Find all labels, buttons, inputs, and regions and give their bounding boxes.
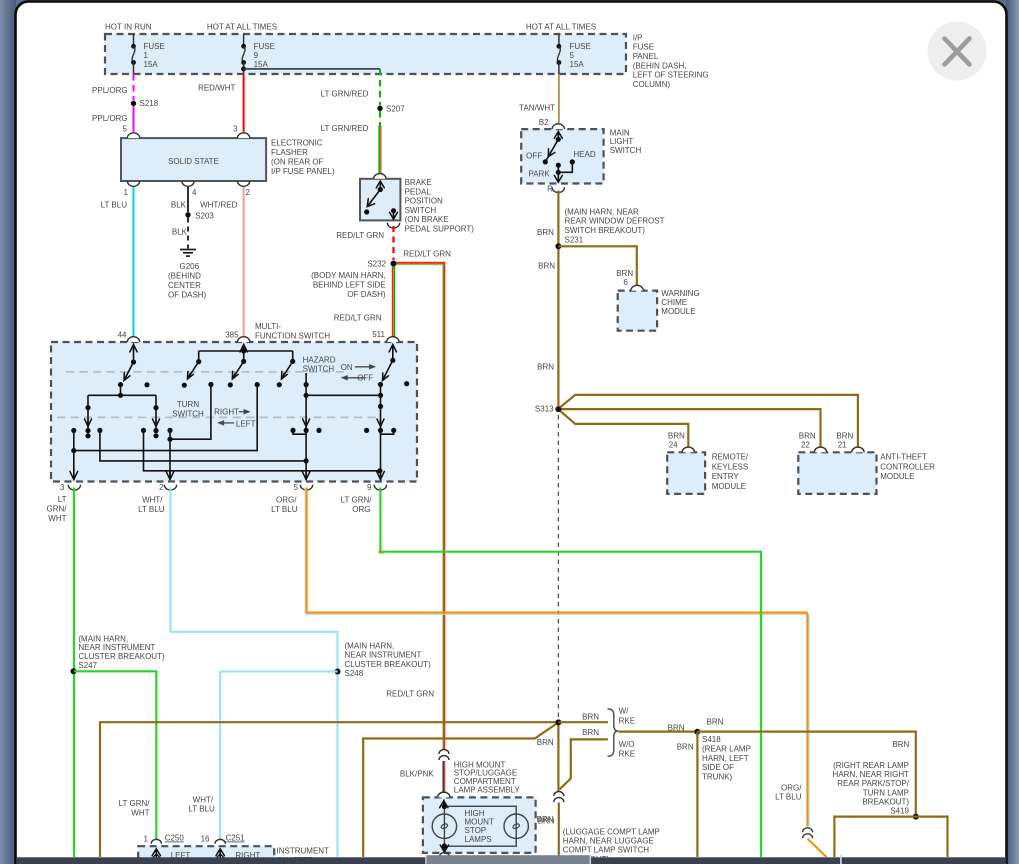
svg-text:MODULE: MODULE [661,307,695,316]
svg-text:BRN: BRN [616,269,633,278]
svg-text:MODULE: MODULE [880,472,914,481]
svg-text:S207: S207 [386,105,405,114]
svg-text:SIDE OF: SIDE OF [702,763,734,772]
svg-text:BRN: BRN [538,817,555,826]
svg-text:WHT/: WHT/ [193,795,214,804]
svg-text:FUSE: FUSE [144,42,165,51]
svg-text:FLASHER: FLASHER [271,148,308,157]
svg-text:S248: S248 [345,669,364,678]
svg-text:BRN: BRN [582,728,599,737]
svg-text:I/P FUSE PANEL): I/P FUSE PANEL) [271,167,335,176]
svg-text:BRN: BRN [538,262,555,271]
svg-text:FUSE: FUSE [254,42,275,51]
svg-text:CLUSTER BREAKOUT): CLUSTER BREAKOUT) [345,660,432,669]
svg-text:(MAIN HARN, NEAR: (MAIN HARN, NEAR [565,207,639,216]
svg-text:MODULE: MODULE [712,482,746,491]
svg-text:3: 3 [233,125,238,134]
svg-text:(RIGHT REAR LAMP: (RIGHT REAR LAMP [833,761,909,770]
svg-text:RED/LT GRN: RED/LT GRN [334,314,382,323]
svg-text:CENTER: CENTER [168,281,201,290]
svg-text:CONTROLLER: CONTROLLER [880,462,935,471]
svg-text:S419: S419 [890,807,909,816]
svg-text:G206: G206 [180,262,200,271]
svg-text:LT BLU: LT BLU [188,805,215,814]
svg-text:RED/WHT: RED/WHT [198,83,235,92]
svg-text:ELECTRONIC: ELECTRONIC [271,138,323,147]
svg-text:BLK: BLK [171,201,187,210]
svg-text:LT BLU: LT BLU [271,505,298,514]
svg-text:ENTRY: ENTRY [712,472,740,481]
svg-text:REAR WINDOW DEFROST: REAR WINDOW DEFROST [565,217,665,226]
svg-text:(REAR LAMP: (REAR LAMP [702,744,751,753]
svg-text:NEAR INSTRUMENT: NEAR INSTRUMENT [78,643,155,652]
svg-text:5: 5 [123,125,128,134]
svg-text:4: 4 [192,188,197,197]
svg-text:(BEHIND: (BEHIND [168,271,201,280]
svg-text:1: 1 [124,188,129,197]
svg-text:WHT/: WHT/ [142,496,163,505]
svg-text:LT GRN/: LT GRN/ [341,496,373,505]
svg-text:LT GRN/RED: LT GRN/RED [321,89,369,98]
svg-text:REAR PARK/STOP/: REAR PARK/STOP/ [837,779,910,788]
svg-text:BREAKOUT): BREAKOUT) [862,797,909,806]
svg-text:21: 21 [838,440,847,449]
svg-text:SWITCH BREAKOUT): SWITCH BREAKOUT) [565,226,646,235]
svg-text:BLK/PNK: BLK/PNK [400,769,434,778]
svg-text:2: 2 [159,483,164,492]
svg-text:C250: C250 [165,834,185,843]
svg-text:15A: 15A [254,60,269,69]
svg-text:2: 2 [246,188,251,197]
svg-text:6: 6 [623,278,628,287]
svg-text:LEFT OF STEERING: LEFT OF STEERING [633,71,709,80]
svg-text:KEYLESS: KEYLESS [712,462,748,471]
svg-text:1: 1 [144,834,149,843]
svg-text:511: 511 [372,330,385,339]
svg-text:CHIME: CHIME [661,298,687,307]
svg-text:BRN: BRN [668,723,685,732]
svg-text:OFF: OFF [357,374,373,383]
svg-text:ORG/: ORG/ [781,783,802,792]
svg-text:TRUNK): TRUNK) [702,773,733,782]
svg-text:15A: 15A [570,60,585,69]
svg-text:SWITCH: SWITCH [405,206,437,215]
svg-text:MULTI-: MULTI- [255,322,281,331]
svg-text:NEAR INSTRUMENT: NEAR INSTRUMENT [345,651,422,660]
svg-text:WHT/RED: WHT/RED [200,201,238,210]
svg-text:OFF: OFF [526,152,542,161]
svg-text:BRN: BRN [677,742,694,751]
svg-text:TAN/WHT: TAN/WHT [519,103,555,112]
svg-text:BEHIND LEFT SIDE: BEHIND LEFT SIDE [313,280,386,289]
svg-text:(ON BRAKE: (ON BRAKE [405,215,449,224]
svg-text:PEDAL SUPPORT): PEDAL SUPPORT) [405,225,475,234]
svg-text:S232: S232 [367,259,386,268]
svg-text:W/O: W/O [619,740,635,749]
svg-text:LAMPS: LAMPS [465,835,492,844]
svg-text:BRN: BRN [582,713,599,722]
svg-text:WHT: WHT [131,808,149,817]
svg-text:BRN: BRN [537,738,554,747]
svg-text:(LUGGAGE COMPT LAMP: (LUGGAGE COMPT LAMP [563,827,660,836]
svg-text:BLK: BLK [172,228,188,237]
svg-text:BRN: BRN [707,718,724,727]
svg-text:COLUMN): COLUMN) [633,80,671,89]
svg-text:(BODY MAIN HARN,: (BODY MAIN HARN, [311,271,386,280]
svg-text:INSTRUMENT: INSTRUMENT [277,847,330,856]
svg-text:9: 9 [254,51,259,60]
svg-text:R: R [547,185,553,194]
svg-text:PARK: PARK [528,169,550,178]
svg-text:(ON REAR OF: (ON REAR OF [271,157,324,166]
svg-text:BRN: BRN [537,228,554,237]
svg-text:HARN, LEFT: HARN, LEFT [702,754,749,763]
svg-text:PANEL: PANEL [633,52,659,61]
svg-text:TURN: TURN [177,400,199,409]
svg-text:22: 22 [801,440,810,449]
svg-text:CLUSTER BREAKOUT): CLUSTER BREAKOUT) [78,652,165,661]
svg-text:ORG/: ORG/ [276,496,297,505]
svg-text:9: 9 [367,483,372,492]
svg-text:SOLID STATE: SOLID STATE [168,157,219,166]
svg-text:44: 44 [118,331,127,340]
svg-text:S313: S313 [535,405,554,414]
svg-text:HARN, NEAR RIGHT: HARN, NEAR RIGHT [833,770,910,779]
svg-text:(BEHIN DASH,: (BEHIN DASH, [633,61,687,70]
svg-text:RED/LT GRN: RED/LT GRN [386,689,434,698]
svg-text:LT: LT [58,495,67,504]
svg-text:HEAD: HEAD [573,150,595,159]
svg-text:C251: C251 [226,834,246,843]
svg-text:LT GRN/: LT GRN/ [119,799,151,808]
svg-text:OF DASH): OF DASH) [347,290,386,299]
svg-text:S418: S418 [702,735,721,744]
svg-text:BRAKE: BRAKE [405,178,432,187]
svg-text:RIGHT: RIGHT [214,407,239,416]
svg-text:SWITCH: SWITCH [172,410,204,419]
svg-text:LT BLU: LT BLU [101,201,128,210]
svg-text:POSITION: POSITION [405,197,443,206]
svg-text:S231: S231 [565,236,584,245]
svg-text:PEDAL: PEDAL [405,187,432,196]
svg-text:LT BLU: LT BLU [138,505,165,514]
svg-text:ON: ON [341,363,353,372]
svg-text:S247: S247 [78,661,97,670]
svg-text:BRN: BRN [892,740,909,749]
svg-text:B2: B2 [539,118,549,127]
svg-text:S203: S203 [195,212,214,221]
svg-text:385: 385 [225,331,239,340]
svg-text:TURN LAMP: TURN LAMP [863,788,909,797]
svg-text:LT BLU: LT BLU [775,793,802,802]
svg-text:RKE: RKE [619,749,635,758]
svg-text:24: 24 [669,440,678,449]
svg-text:PPL/ORG: PPL/ORG [92,114,128,123]
svg-text:3: 3 [60,483,65,492]
svg-text:15A: 15A [144,60,159,69]
svg-text:1: 1 [144,51,149,60]
svg-text:(MAIN HARN,: (MAIN HARN, [345,641,395,650]
svg-text:COMPT LAMP SWITCH: COMPT LAMP SWITCH [563,846,650,855]
svg-text:HOT AT ALL TIMES: HOT AT ALL TIMES [207,23,277,32]
svg-text:LEFT: LEFT [236,420,256,429]
svg-text:FUSE: FUSE [633,43,654,52]
svg-text:LIGHT: LIGHT [610,137,634,146]
svg-text:RKE: RKE [619,716,635,725]
svg-text:5: 5 [294,483,299,492]
svg-text:OF DASH): OF DASH) [168,290,207,299]
svg-text:LAMP ASSEMBLY: LAMP ASSEMBLY [454,785,521,794]
svg-text:HAZARD: HAZARD [303,356,336,365]
svg-text:W/: W/ [619,707,630,716]
svg-text:ANTI-THEFT: ANTI-THEFT [880,453,927,462]
svg-text:RED/LT GRN: RED/LT GRN [336,231,384,240]
svg-text:5: 5 [570,51,575,60]
svg-text:SWITCH: SWITCH [610,146,642,155]
svg-text:HOT AT ALL TIMES: HOT AT ALL TIMES [526,23,596,32]
svg-text:(MAIN HARN,: (MAIN HARN, [78,634,128,643]
svg-text:HOT IN RUN: HOT IN RUN [105,23,152,32]
svg-text:SWITCH: SWITCH [303,364,335,373]
svg-text:16: 16 [201,834,210,843]
svg-text:S218: S218 [140,99,159,108]
svg-text:WARNING: WARNING [661,289,699,298]
svg-text:FUNCTION SWITCH: FUNCTION SWITCH [255,331,330,340]
svg-text:I/P: I/P [633,33,643,42]
svg-text:GRN/: GRN/ [47,504,68,513]
svg-text:REMOTE/: REMOTE/ [712,453,749,462]
svg-text:HARN, NEAR LUGGAGE: HARN, NEAR LUGGAGE [563,837,654,846]
svg-text:MAIN: MAIN [610,128,630,137]
svg-text:LT GRN/RED: LT GRN/RED [321,124,369,133]
svg-text:ORG: ORG [352,505,370,514]
svg-text:FUSE: FUSE [570,42,591,51]
svg-text:RED/LT GRN: RED/LT GRN [403,249,451,258]
svg-text:WHT: WHT [48,514,66,523]
svg-text:BRN: BRN [537,363,554,372]
svg-text:PPL/ORG: PPL/ORG [92,86,128,95]
